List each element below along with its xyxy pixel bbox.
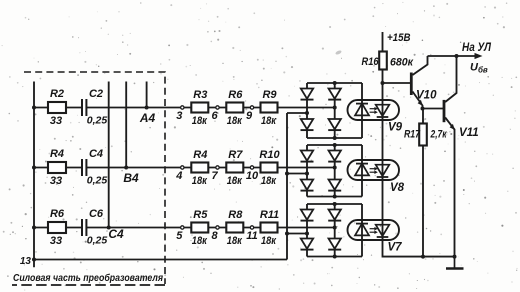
capacitor C2 xyxy=(82,99,86,117)
output На УЛ arrow xyxy=(475,53,483,59)
bridge 2 diode lower-left xyxy=(301,180,314,191)
resistor R16 xyxy=(379,52,387,70)
svg-text:18к: 18к xyxy=(261,175,277,187)
svg-text:R16: R16 xyxy=(362,56,380,68)
junction V10 emitter node xyxy=(421,107,425,111)
bridge 3 diode lower-right xyxy=(328,239,341,250)
svg-text:33: 33 xyxy=(50,115,62,127)
svg-text:A4: A4 xyxy=(139,111,156,125)
wire V10 emitter to V11 base xyxy=(423,108,444,110)
svg-text:2,7к: 2,7к xyxy=(430,129,448,141)
svg-text:V10: V10 xyxy=(416,90,437,102)
wire +15V feed and photodetector chain xyxy=(383,32,455,257)
svg-text:3: 3 xyxy=(176,110,182,122)
svg-text:33: 33 xyxy=(50,175,62,187)
wire bridge 2 left column xyxy=(306,145,308,197)
wire bridge 3 left column xyxy=(306,204,308,257)
wire bridge 1 AC2 link xyxy=(287,112,307,114)
bridge 1 diode lower-right xyxy=(328,119,341,130)
svg-text:18к: 18к xyxy=(227,115,243,127)
ground xyxy=(446,257,464,269)
wire bridge 3 right column xyxy=(334,204,336,257)
resistor R6 xyxy=(48,222,66,233)
svg-text:9: 9 xyxy=(246,110,253,122)
junction bridge 2 rails/column xyxy=(333,143,337,147)
svg-text:R10: R10 xyxy=(259,149,280,161)
terminal 10 xyxy=(250,166,253,169)
junction left bus row 3 xyxy=(32,226,36,230)
junction common return row3 tap xyxy=(285,232,289,236)
svg-text:+15В: +15В xyxy=(387,32,411,44)
wire optocoupler 3 LED branch xyxy=(361,204,363,257)
svg-text:B4: B4 xyxy=(123,171,139,185)
resistor R2 xyxy=(48,102,66,113)
svg-text:R17: R17 xyxy=(404,129,421,141)
svg-text:V9: V9 xyxy=(388,122,403,134)
resistor R3 xyxy=(191,103,208,113)
optocoupler V9 xyxy=(348,100,400,120)
transistor V10 xyxy=(411,56,427,109)
resistor R10 xyxy=(261,163,278,173)
wire bridge 3 AC2 link xyxy=(287,233,307,235)
resistor R17 xyxy=(419,124,427,146)
wire bridge 1 bottom rail xyxy=(307,137,362,139)
resistor R5 xyxy=(191,223,208,233)
wire phase bus A4 vertical xyxy=(146,82,148,108)
svg-text:680к: 680к xyxy=(390,57,414,69)
transistor V11 xyxy=(444,56,457,257)
junction bridge 1 rails/column xyxy=(333,81,337,85)
svg-text:7: 7 xyxy=(211,170,218,182)
svg-text:R3: R3 xyxy=(193,89,207,101)
resistor R8 xyxy=(226,223,243,233)
svg-text:V7: V7 xyxy=(388,242,403,254)
svg-text:18к: 18к xyxy=(227,175,243,187)
optocoupler V7 xyxy=(348,220,400,240)
junction node 13 / return xyxy=(32,258,36,262)
svg-text:R2: R2 xyxy=(50,88,64,100)
svg-text:Силовая часть преобразователя: Силовая часть преобразователя xyxy=(13,272,163,284)
svg-text:8: 8 xyxy=(211,230,218,242)
wire bridge 1 top rail xyxy=(307,82,362,84)
wire V10 base from R16 xyxy=(383,82,411,84)
svg-text:C2: C2 xyxy=(89,88,103,100)
resistor R11 xyxy=(261,223,278,233)
wire row 2 horizontal xyxy=(34,167,335,169)
svg-text:C4: C4 xyxy=(89,148,103,160)
bridge 2 diode upper-left xyxy=(301,151,314,162)
svg-text:V11: V11 xyxy=(459,127,479,139)
wire bridge 2 top rail xyxy=(307,144,362,146)
wire bridge 1 left column xyxy=(306,83,308,138)
node A4 xyxy=(145,106,149,110)
resistor R9 xyxy=(261,103,278,113)
bridge 1 diode upper-right xyxy=(328,89,341,100)
terminal 11 xyxy=(250,226,253,229)
svg-text:18к: 18к xyxy=(261,115,277,127)
wire left bus vertical (node 13) xyxy=(33,82,35,268)
svg-text:4: 4 xyxy=(175,170,182,182)
svg-text:0,25: 0,25 xyxy=(87,175,108,187)
optocoupler V8 xyxy=(348,160,400,180)
junction output rail xyxy=(455,54,459,58)
terminal 4 xyxy=(181,166,184,169)
svg-text:0,25: 0,25 xyxy=(87,235,108,247)
bridge 1 diode lower-left xyxy=(301,119,314,130)
bridge 2 diode upper-right xyxy=(328,151,341,162)
svg-text:18к: 18к xyxy=(192,115,208,127)
svg-text:R4: R4 xyxy=(50,148,64,160)
svg-text:18к: 18к xyxy=(192,175,208,187)
wire common return vertical xyxy=(286,113,288,260)
resistor R4 xyxy=(48,162,66,173)
node B4 xyxy=(124,166,128,170)
capacitor C4 xyxy=(82,159,86,177)
wire phase bus C4 vertical xyxy=(108,82,110,228)
svg-text:5: 5 xyxy=(176,230,183,242)
svg-text:13: 13 xyxy=(20,256,32,267)
wire optocoupler 2 LED branch xyxy=(361,145,363,197)
svg-text:R6: R6 xyxy=(50,208,65,220)
wire row 1 horizontal xyxy=(34,107,335,109)
dashed boundary of power section xyxy=(24,72,165,284)
svg-text:R5: R5 xyxy=(193,209,208,221)
svg-text:10: 10 xyxy=(246,170,259,182)
bridge 3 diode lower-left xyxy=(301,239,314,250)
svg-text:11: 11 xyxy=(246,230,257,242)
junction emitter/ground rail xyxy=(453,255,457,259)
junction R17 ground xyxy=(421,255,425,259)
bridge 3 diode upper-right xyxy=(328,210,341,221)
resistor R7 xyxy=(226,163,243,173)
wire phase bus B4 vertical xyxy=(125,82,127,168)
svg-text:18к: 18к xyxy=(227,235,243,247)
svg-text:6: 6 xyxy=(211,110,218,122)
terminal 7 xyxy=(216,166,219,169)
wire R17 branch xyxy=(422,109,424,257)
svg-text:18к: 18к xyxy=(261,235,277,247)
resistor R6 xyxy=(226,103,243,113)
junction left bus row 1 xyxy=(32,106,36,110)
svg-text:R7: R7 xyxy=(228,149,243,161)
svg-text:33: 33 xyxy=(50,235,62,247)
terminal 3 xyxy=(181,106,184,109)
bridge 3 diode upper-left xyxy=(301,210,314,221)
svg-text:R9: R9 xyxy=(262,89,277,101)
svg-text:C4: C4 xyxy=(108,227,124,241)
svg-text:R8: R8 xyxy=(228,209,243,221)
wire optocoupler 1 LED branch xyxy=(361,83,363,138)
wire bridge 3 top rail xyxy=(307,203,362,205)
bridge 1 diode upper-left xyxy=(301,89,314,100)
wire bridge 2 bottom rail xyxy=(307,196,362,198)
wire bridge 3 bottom rail xyxy=(307,256,362,258)
junction R16/V10 base/photochain xyxy=(381,81,385,85)
wire bridge 1 right column xyxy=(334,83,336,138)
svg-text:R6: R6 xyxy=(228,89,243,101)
svg-text:18к: 18к xyxy=(192,235,208,247)
node C4 xyxy=(107,226,111,230)
terminal 9 xyxy=(250,106,253,109)
svg-text:R11: R11 xyxy=(260,209,279,221)
svg-text:R4: R4 xyxy=(193,149,207,161)
terminal 5 xyxy=(181,226,184,229)
junction left bus row 2 xyxy=(32,166,36,170)
terminal 8 xyxy=(216,226,219,229)
svg-text:На УЛ: На УЛ xyxy=(462,42,492,54)
capacitor C6 xyxy=(82,219,86,237)
terminal 6 xyxy=(216,106,219,109)
svg-text:C6: C6 xyxy=(89,208,104,220)
wire bridge 2 AC2 link xyxy=(287,173,307,175)
junction bridge 3 rails/column xyxy=(333,202,337,206)
node top output rail xyxy=(428,55,476,57)
wire bridge 2 right column xyxy=(334,145,336,197)
wire common return horizontal xyxy=(34,259,287,261)
svg-text:0,25: 0,25 xyxy=(87,115,108,127)
wire row 3 horizontal xyxy=(34,227,335,229)
svg-text:V8: V8 xyxy=(390,182,405,194)
resistor R4 xyxy=(191,163,208,173)
junction common return row2 tap xyxy=(285,172,289,176)
bridge 2 diode lower-right xyxy=(328,180,341,191)
